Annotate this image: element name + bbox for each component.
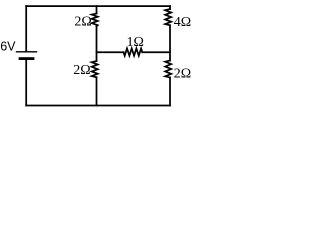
svg-text:2Ω: 2Ω [74,15,91,30]
svg-text:2Ω: 2Ω [174,66,191,81]
svg-text:2Ω: 2Ω [73,63,90,78]
svg-text:6V: 6V [0,39,16,53]
svg-text:4Ω: 4Ω [174,15,191,30]
svg-text:1Ω: 1Ω [127,35,144,50]
